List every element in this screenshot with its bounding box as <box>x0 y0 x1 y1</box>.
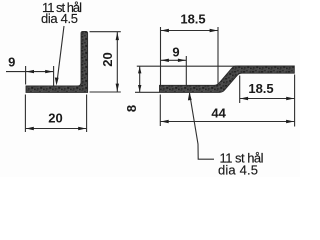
svg-text:20: 20 <box>48 111 62 126</box>
dimension 9 (left) arrows <box>26 70 34 73</box>
svg-text:44: 44 <box>211 106 226 121</box>
dimension 20 bottom (left) arrows <box>26 127 34 130</box>
dimension 20 vertical (left) arrows <box>116 32 119 40</box>
dimension 8 extension lines <box>137 65 236 67</box>
dimension 18.5 top extension lines <box>160 27 162 85</box>
dimension 9 (right) extension line <box>185 56 187 85</box>
svg-text:18.5: 18.5 <box>248 81 273 96</box>
svg-text:8: 8 <box>124 105 139 112</box>
leader arrowhead (left) <box>55 78 59 86</box>
svg-text:dia 4.5: dia 4.5 <box>41 11 78 26</box>
dimension 20 bottom (left) extension lines <box>24 95 26 133</box>
dimension 9 (left) extension lines <box>25 66 27 85</box>
svg-text:9: 9 <box>8 55 15 70</box>
dimension 44 dim line <box>160 121 294 123</box>
leader arrowhead (right) <box>188 93 192 101</box>
svg-text:dia 4.5: dia 4.5 <box>218 163 258 178</box>
L-angle profile body (left drawing) <box>26 31 88 92</box>
dimension 8 dim line <box>139 66 141 92</box>
dimension 9 (right) dim line <box>161 59 187 61</box>
dimension 20 vertical (left) extension lines <box>90 31 121 33</box>
svg-text:18.5: 18.5 <box>180 11 205 26</box>
dimension 20 vertical (left) dim line <box>116 32 118 92</box>
dimension 18.5 right dim line <box>240 98 295 100</box>
dimension 8 arrows <box>138 67 141 74</box>
Z-joggle profile body (right drawing) <box>160 66 295 92</box>
svg-text:20: 20 <box>100 52 115 66</box>
dimension 18.5 right arrows <box>240 97 248 100</box>
leader line to hole (right) <box>190 93 215 159</box>
dimension 20 bottom (left) dim line <box>25 128 86 130</box>
dimension 9 (right) arrows <box>161 59 169 62</box>
leader line to hole (left) <box>58 26 65 78</box>
dimension 9 (left) dim line <box>6 71 54 73</box>
dimension 44 extension line <box>159 95 161 127</box>
dimension 18.5 top dim line <box>161 30 219 32</box>
svg-text:9: 9 <box>172 44 179 59</box>
dimension 44 arrows <box>161 120 169 123</box>
dimension 18.5 top arrows <box>161 29 169 32</box>
dimension 18.5 right extension lines <box>239 76 241 104</box>
